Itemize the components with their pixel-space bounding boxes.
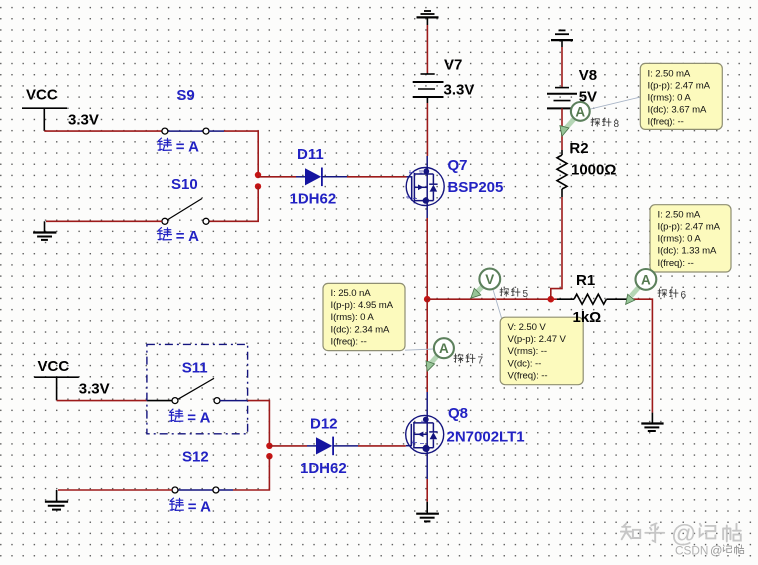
wire S10 to node [209, 186, 258, 221]
svg-text:I(freq): --: I(freq): -- [648, 116, 684, 127]
svg-text:V(p-p): 2.47 V: V(p-p): 2.47 V [508, 334, 567, 345]
wire Q7 drain to center node [426, 205, 428, 299]
svg-text:A: A [641, 272, 651, 287]
junction node D12 bottom [266, 453, 272, 459]
transistor Q8 2N7002LT1 [406, 415, 444, 453]
svg-text:I(rms): 0 A: I(rms): 0 A [658, 234, 702, 245]
wire S9 to node [224, 131, 258, 175]
junction node R1/R2 [548, 296, 555, 303]
svg-text:R2: R2 [569, 140, 588, 157]
svg-text:D12: D12 [310, 416, 338, 433]
wire node to Q8 drain [426, 299, 428, 416]
svg-text:1000Ω: 1000Ω [571, 162, 616, 179]
wire Q8 source to ground [426, 453, 428, 513]
selection box around S11 [147, 344, 248, 433]
svg-text:V: V [485, 272, 494, 287]
battery V7 [413, 74, 444, 97]
probe 8 callout line [589, 97, 640, 109]
probe 6 A [636, 269, 657, 290]
ground S12 [45, 502, 68, 510]
svg-text:Q7: Q7 [448, 157, 468, 174]
junction node center [424, 296, 431, 303]
svg-text:= A: = A [188, 499, 211, 516]
probe 5 callout line [493, 290, 502, 319]
label probe 5 [500, 288, 529, 300]
svg-text:I(dc): 2.34 mA: I(dc): 2.34 mA [331, 324, 391, 335]
junction node D11 top [255, 172, 261, 178]
wire V8 to R2 [561, 108, 563, 155]
svg-text:= A: = A [187, 410, 210, 427]
wire node to R1 [427, 298, 574, 300]
switch S12 (closed) [172, 487, 233, 493]
svg-text:@: @ [710, 544, 722, 558]
svg-text:V(dc): --: V(dc): -- [508, 358, 542, 369]
svg-text:I(p-p): 2.47 mA: I(p-p): 2.47 mA [658, 222, 721, 233]
svg-text:5: 5 [523, 289, 529, 300]
svg-text:S9: S9 [176, 87, 194, 104]
svg-text:I: 2.50 mA: I: 2.50 mA [648, 68, 691, 79]
label S12 key [170, 498, 212, 515]
watermark CSDN [675, 544, 744, 558]
probe 8 A [571, 102, 590, 121]
probe 6 reading box [650, 205, 731, 272]
wire ground to S12 [57, 490, 172, 502]
wire R2 to node [551, 197, 562, 299]
svg-text:1DH62: 1DH62 [300, 460, 347, 477]
probe 5 arrow [471, 285, 485, 299]
switch S10 (open) [162, 199, 209, 225]
resistor R1 1kOhm [574, 294, 629, 304]
transistor Q7 BSP205 [406, 168, 444, 206]
svg-text:7: 7 [478, 355, 484, 366]
svg-text:I(dc): 1.33 mA: I(dc): 1.33 mA [658, 246, 718, 257]
svg-text:1kΩ: 1kΩ [573, 309, 602, 326]
probe 7 reading box [323, 283, 405, 350]
probe 8 reading box [640, 63, 722, 129]
ground S10 [33, 233, 56, 240]
svg-text:A: A [575, 104, 585, 119]
label probe 6 [658, 289, 687, 301]
svg-text:VCC: VCC [38, 358, 70, 375]
svg-text:I(freq): --: I(freq): -- [658, 258, 694, 269]
power VCC upper [22, 87, 67, 109]
power VCC lower [34, 358, 79, 377]
svg-text:V7: V7 [444, 57, 462, 74]
ground right below R1 [641, 424, 663, 432]
svg-text:3.3V: 3.3V [444, 82, 475, 99]
watermark zhihu [621, 520, 741, 548]
label probe 7 [454, 354, 484, 366]
svg-text:6: 6 [681, 290, 687, 301]
svg-text:2N7002LT1: 2N7002LT1 [447, 429, 525, 446]
wire S12 to node [233, 456, 269, 490]
battery V8 5V [547, 88, 577, 109]
svg-text:I: 2.50 mA: I: 2.50 mA [658, 209, 701, 220]
ground top of V7 branch [417, 11, 439, 17]
wire VCC to S9 [44, 108, 162, 131]
switch S11 (open) [172, 378, 220, 403]
probe 8 arrow [560, 119, 575, 137]
diode D12 1DH62 [307, 437, 358, 456]
svg-text:8: 8 [614, 119, 620, 130]
svg-text:I(p-p): 4.95 mA: I(p-p): 4.95 mA [331, 300, 394, 311]
svg-text:D11: D11 [297, 146, 324, 163]
label S11 key [169, 409, 211, 426]
wire V7 to Q7 source [426, 97, 428, 171]
svg-text:Q8: Q8 [448, 405, 468, 422]
svg-text:S10: S10 [171, 176, 198, 193]
svg-text:CSDN: CSDN [675, 544, 708, 558]
svg-text:= A: = A [176, 228, 199, 245]
ground below Q8 [416, 514, 439, 522]
wire node to D11 anode [258, 176, 296, 178]
wire R1 to right ground [629, 299, 652, 412]
probe 5 V [479, 269, 500, 290]
label S9 key [158, 138, 200, 155]
probe 7 A [434, 338, 454, 358]
svg-text:S11: S11 [182, 360, 208, 377]
svg-text:= A: = A [176, 139, 199, 156]
probe 5 reading box [500, 317, 583, 385]
svg-text:V(freq): --: V(freq): -- [508, 370, 548, 381]
svg-text:I(p-p): 2.47 mA: I(p-p): 2.47 mA [648, 80, 711, 91]
svg-text:I(rms): 0 A: I(rms): 0 A [331, 312, 375, 323]
svg-text:I: 25.0 nA: I: 25.0 nA [331, 288, 372, 299]
svg-text:R1: R1 [576, 272, 595, 289]
svg-text:BSP205: BSP205 [448, 179, 504, 196]
svg-text:A: A [439, 341, 449, 356]
svg-text:V: 2.50 V: V: 2.50 V [508, 322, 547, 333]
wire D12 cathode to Q8 gate [358, 445, 406, 447]
wire node to D12 anode [269, 445, 307, 447]
svg-text:VCC: VCC [26, 87, 58, 104]
svg-text:I(dc): 3.67 mA: I(dc): 3.67 mA [648, 104, 708, 115]
svg-text:V(rms): --: V(rms): -- [508, 346, 548, 357]
svg-text:I(rms): 0 A: I(rms): 0 A [648, 92, 692, 103]
svg-text:S12: S12 [182, 449, 209, 466]
label S10 key [158, 228, 200, 245]
junction node D11 bottom [255, 183, 261, 189]
ground top of V8 branch [551, 30, 573, 40]
svg-text:3.3V: 3.3V [68, 112, 99, 129]
wire S11 to node [220, 401, 269, 445]
switch S9 (closed) [162, 128, 224, 134]
diode D11 1DH62 [296, 168, 347, 187]
svg-text:V8: V8 [579, 67, 597, 84]
wire VCC to S11 [57, 377, 172, 400]
svg-text:I(freq): --: I(freq): -- [331, 336, 367, 347]
wire V7 ground to battery [426, 17, 428, 74]
probe 7 arrow [426, 355, 439, 372]
wire ground to S10 [45, 221, 162, 232]
wire V8 ground to battery [561, 40, 563, 88]
probe 6 arrow [626, 287, 640, 305]
svg-text:3.3V: 3.3V [79, 381, 110, 398]
probe 7 callout line [405, 349, 434, 350]
junction node D12 top [266, 443, 272, 449]
label probe 8 [591, 118, 620, 130]
svg-text:1DH62: 1DH62 [290, 191, 337, 208]
wire D11 cathode to Q7 gate [347, 176, 407, 178]
resistor R2 1000Ohm [557, 155, 567, 197]
